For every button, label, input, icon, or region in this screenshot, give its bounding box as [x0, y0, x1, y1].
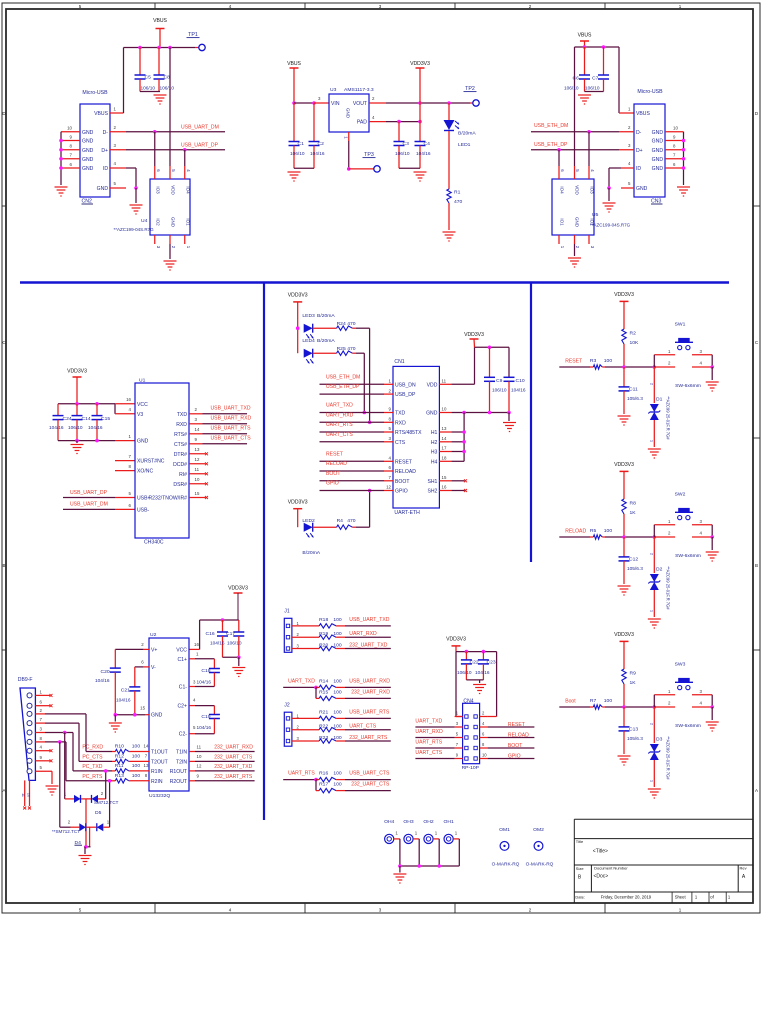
- svg-text:104/16: 104/16: [49, 425, 64, 431]
- svg-text:ID: ID: [103, 166, 108, 172]
- svg-text:IO4: IO4: [560, 186, 565, 194]
- svg-text:100: 100: [333, 735, 342, 741]
- svg-text:R25: R25: [337, 346, 346, 352]
- svg-text:R11: R11: [115, 763, 124, 769]
- svg-text:V+: V+: [151, 647, 157, 653]
- svg-text:VIN: VIN: [331, 101, 340, 107]
- svg-text:UART_RTS: UART_RTS: [288, 771, 315, 777]
- svg-text:PC_CTS: PC_CTS: [82, 754, 103, 760]
- svg-text:B/20mA: B/20mA: [302, 550, 320, 556]
- svg-text:12: 12: [197, 764, 202, 769]
- svg-text:R2: R2: [630, 331, 637, 337]
- svg-text:TXD: TXD: [177, 412, 188, 418]
- svg-text:10: 10: [197, 754, 202, 759]
- svg-text:2: 2: [649, 383, 654, 385]
- svg-text:18: 18: [442, 456, 447, 461]
- svg-text:232_UART_TXD: 232_UART_TXD: [214, 764, 252, 770]
- svg-text:100: 100: [333, 617, 342, 623]
- svg-text:Boot: Boot: [565, 698, 576, 704]
- svg-text:BOOT: BOOT: [508, 743, 522, 749]
- svg-text:D1: D1: [656, 397, 663, 403]
- svg-text:100: 100: [604, 528, 613, 534]
- svg-text:C2-: C2-: [179, 732, 188, 738]
- svg-text:T2OUT: T2OUT: [151, 759, 168, 765]
- svg-text:C5: C5: [145, 75, 152, 81]
- svg-text:OM2: OM2: [533, 827, 544, 833]
- svg-text:GPIO: GPIO: [326, 481, 339, 487]
- svg-text:10: 10: [26, 793, 30, 797]
- svg-text:USB_ETH_DM: USB_ETH_DM: [326, 374, 360, 380]
- svg-text:VCC: VCC: [137, 402, 148, 408]
- svg-text:DCD#: DCD#: [173, 462, 187, 468]
- svg-text:UART_TXD: UART_TXD: [415, 718, 442, 724]
- svg-text:PAD: PAD: [357, 120, 367, 126]
- svg-text:232_UART_CTS: 232_UART_CTS: [351, 782, 390, 788]
- svg-text:T2IN: T2IN: [176, 759, 187, 765]
- svg-text:IO2: IO2: [156, 218, 161, 226]
- svg-text:**AZC99 25-01F.R 7G#: **AZC99 25-01F.R 7G#: [665, 736, 670, 780]
- svg-text:16: 16: [194, 642, 199, 647]
- svg-text:USB_UART_DM: USB_UART_DM: [181, 124, 219, 130]
- svg-text:R12: R12: [115, 754, 124, 760]
- svg-text:100: 100: [333, 689, 342, 695]
- svg-text:106/10: 106/10: [492, 388, 507, 394]
- svg-text:BOOT: BOOT: [326, 471, 340, 477]
- svg-text:V3: V3: [137, 412, 143, 418]
- svg-text:VBUS: VBUS: [636, 111, 650, 117]
- svg-text:13: 13: [144, 763, 149, 768]
- svg-text:VOUT: VOUT: [353, 101, 367, 107]
- svg-text:D5: D5: [95, 810, 102, 816]
- svg-text:232_UART_RXD: 232_UART_RXD: [351, 689, 390, 695]
- svg-text:TP2: TP2: [465, 86, 475, 92]
- svg-text:104/16: 104/16: [310, 151, 325, 157]
- svg-text:H3: H3: [431, 450, 438, 456]
- svg-text:VDD3V3: VDD3V3: [464, 332, 484, 338]
- svg-text:C2+: C2+: [178, 704, 188, 710]
- svg-text:C17: C17: [226, 631, 235, 637]
- svg-text:R22: R22: [319, 724, 328, 730]
- svg-text:RTS/485TX: RTS/485TX: [395, 430, 422, 436]
- svg-text:SW1: SW1: [675, 322, 686, 328]
- svg-text:D-: D-: [103, 130, 109, 136]
- svg-text:R4: R4: [337, 518, 344, 524]
- svg-text:2: 2: [649, 553, 654, 555]
- svg-text:USB_UART_DP: USB_UART_DP: [70, 490, 108, 496]
- svg-text:ID: ID: [636, 166, 641, 172]
- svg-text:GND: GND: [575, 217, 580, 228]
- svg-text:GPIO: GPIO: [395, 489, 408, 495]
- svg-text:A: A: [755, 788, 758, 793]
- svg-text:USB_UART_DP: USB_UART_DP: [181, 142, 219, 148]
- svg-text:CN1: CN1: [394, 359, 404, 365]
- svg-text:USB-: USB-: [137, 507, 149, 513]
- svg-text:LED3: LED3: [302, 313, 315, 319]
- svg-text:TP1: TP1: [188, 32, 198, 38]
- svg-text:UART_CTS: UART_CTS: [326, 432, 353, 438]
- svg-text:2: 2: [649, 723, 654, 725]
- svg-text:R13: R13: [115, 773, 124, 779]
- svg-text:CTS#: CTS#: [174, 442, 187, 448]
- svg-text:16: 16: [442, 485, 447, 490]
- svg-text:IO1: IO1: [560, 218, 565, 226]
- svg-text:104/16: 104/16: [511, 388, 526, 394]
- svg-text:BOOT: BOOT: [395, 479, 409, 485]
- svg-text:C24: C24: [63, 416, 72, 422]
- svg-text:B/20mA: B/20mA: [317, 313, 335, 319]
- svg-text:16: 16: [126, 397, 131, 402]
- svg-text:USB_DP: USB_DP: [395, 392, 416, 398]
- svg-text:D-: D-: [636, 130, 642, 136]
- svg-text:RELOAD: RELOAD: [565, 528, 586, 534]
- svg-text:UART-ETH: UART-ETH: [394, 510, 420, 516]
- svg-text:SW2: SW2: [675, 492, 686, 498]
- svg-text:SW-6x6mm: SW-6x6mm: [675, 383, 701, 389]
- svg-text:Micro-USB: Micro-USB: [637, 89, 663, 95]
- svg-text:10: 10: [482, 753, 487, 758]
- svg-text:USB_UART_DM: USB_UART_DM: [70, 502, 108, 508]
- svg-text:13: 13: [442, 426, 447, 431]
- svg-text:LED2: LED2: [302, 518, 315, 524]
- svg-text:105/6.3: 105/6.3: [627, 396, 643, 402]
- svg-text:100: 100: [333, 771, 342, 777]
- svg-text:SH2: SH2: [427, 489, 437, 495]
- svg-text:Size: Size: [576, 866, 585, 871]
- svg-text:C3: C3: [403, 141, 410, 147]
- svg-text:100: 100: [333, 710, 342, 716]
- svg-text:Friday, December 20, 2019: Friday, December 20, 2019: [601, 894, 652, 899]
- svg-text:USB_UART_CTS: USB_UART_CTS: [349, 771, 390, 777]
- svg-text:D+: D+: [636, 148, 643, 154]
- svg-text:XURST#NC: XURST#NC: [137, 459, 165, 465]
- svg-text:U2: U2: [150, 632, 157, 638]
- svg-text:C8: C8: [164, 75, 171, 81]
- svg-text:VDD3V3: VDD3V3: [67, 369, 87, 375]
- svg-text:J2: J2: [284, 703, 290, 709]
- svg-text:SM712.TCT: SM712.TCT: [94, 800, 119, 805]
- svg-text:B: B: [2, 563, 5, 568]
- svg-text:VDD3V3: VDD3V3: [614, 462, 634, 468]
- svg-text:106/10: 106/10: [457, 670, 472, 676]
- svg-text:R5: R5: [590, 528, 597, 534]
- svg-text:C15: C15: [101, 416, 110, 422]
- svg-text:Micro-USB: Micro-USB: [82, 90, 108, 96]
- svg-text:R9: R9: [630, 671, 637, 677]
- svg-text:C9: C9: [496, 378, 503, 384]
- svg-text:GND: GND: [82, 166, 94, 172]
- svg-text:B/20mA: B/20mA: [458, 131, 476, 137]
- svg-text:R3: R3: [590, 358, 597, 364]
- svg-text:11: 11: [21, 793, 25, 797]
- svg-text:GND: GND: [137, 439, 149, 445]
- svg-text:D3: D3: [656, 737, 663, 743]
- svg-text:GND: GND: [652, 130, 664, 136]
- svg-text:R2IN: R2IN: [151, 779, 163, 785]
- svg-text:PC_RTS: PC_RTS: [82, 774, 103, 780]
- svg-text:11: 11: [195, 467, 200, 472]
- svg-text:USB_UART_TXD: USB_UART_TXD: [349, 617, 389, 623]
- svg-text:O-MARK-RQ: O-MARK-RQ: [526, 861, 554, 867]
- svg-text:B: B: [755, 563, 758, 568]
- svg-text:B/20mA: B/20mA: [317, 338, 335, 344]
- svg-text:106/10: 106/10: [564, 86, 579, 92]
- svg-text:1: 1: [649, 780, 654, 782]
- svg-text:VDD3V3: VDD3V3: [614, 292, 634, 298]
- svg-text:C23: C23: [487, 660, 496, 666]
- svg-text:14: 14: [144, 744, 149, 749]
- svg-text:RXD: RXD: [176, 422, 187, 428]
- svg-text:R23: R23: [319, 735, 328, 741]
- svg-text:13: 13: [195, 447, 200, 452]
- svg-text:VDD3V3: VDD3V3: [288, 499, 308, 505]
- svg-text:10: 10: [195, 477, 200, 482]
- svg-text:R20: R20: [319, 642, 328, 648]
- svg-text:GND: GND: [652, 139, 664, 145]
- svg-text:GND: GND: [652, 166, 664, 172]
- svg-text:OH2: OH2: [423, 819, 433, 825]
- svg-text:R1OUT: R1OUT: [170, 769, 187, 775]
- svg-text:VBUS: VBUS: [153, 18, 167, 24]
- svg-text:GND: GND: [171, 217, 176, 228]
- svg-text:UART_TXD: UART_TXD: [326, 403, 353, 409]
- svg-text:104/16: 104/16: [197, 725, 212, 731]
- svg-text:UART_RTS: UART_RTS: [415, 739, 442, 745]
- svg-text:VDD: VDD: [427, 382, 438, 388]
- svg-text:Date:: Date:: [575, 894, 585, 899]
- svg-text:IO3: IO3: [156, 186, 161, 194]
- svg-text:RTS#: RTS#: [174, 432, 187, 438]
- svg-text:U4: U4: [141, 218, 148, 224]
- svg-text:R15: R15: [319, 689, 328, 695]
- svg-text:100: 100: [132, 754, 141, 760]
- svg-text:D2: D2: [656, 567, 663, 573]
- svg-text:**AZC99 25-01F.R 7G#: **AZC99 25-01F.R 7G#: [665, 396, 670, 440]
- svg-text:LED1: LED1: [458, 142, 471, 148]
- svg-text:USB_UART_RXD: USB_UART_RXD: [349, 679, 390, 685]
- svg-text:R17: R17: [319, 782, 328, 788]
- svg-text:104/16: 104/16: [210, 641, 225, 647]
- svg-text:UART_RXD: UART_RXD: [349, 631, 377, 637]
- svg-text:RESET: RESET: [326, 451, 343, 457]
- svg-text:C6: C6: [573, 76, 580, 82]
- svg-text:C7: C7: [592, 76, 599, 82]
- svg-text:GND: GND: [82, 148, 94, 154]
- svg-text:USB_UART_RXD: USB_UART_RXD: [211, 415, 252, 421]
- svg-text:OM1: OM1: [499, 827, 510, 833]
- svg-text:GND: GND: [636, 186, 648, 192]
- svg-text:106/10: 106/10: [395, 151, 410, 157]
- svg-text:11: 11: [442, 379, 447, 384]
- svg-text:R18: R18: [319, 617, 328, 623]
- svg-text:Sheet: Sheet: [675, 894, 687, 899]
- svg-text:VBUS: VBUS: [578, 33, 592, 39]
- svg-text:100: 100: [132, 744, 141, 750]
- svg-text:USB_UART_RTS: USB_UART_RTS: [349, 710, 390, 716]
- svg-text:R14: R14: [319, 679, 328, 685]
- svg-text:R232/TNOW/IR#: R232/TNOW/IR#: [149, 496, 188, 502]
- svg-text:15: 15: [140, 706, 145, 711]
- svg-text:105/6.3: 105/6.3: [627, 566, 643, 572]
- svg-text:**AZC99 25-01F.R 7G#: **AZC99 25-01F.R 7G#: [665, 566, 670, 610]
- svg-text:USB_UART_RTS: USB_UART_RTS: [211, 425, 252, 431]
- svg-text:RESET: RESET: [565, 358, 582, 364]
- svg-text:232_UART_RXD: 232_UART_RXD: [214, 745, 253, 751]
- svg-text:VBUS: VBUS: [94, 111, 108, 117]
- svg-text:1K: 1K: [630, 680, 637, 686]
- svg-text:11: 11: [197, 744, 202, 749]
- svg-text:**AZC199-04S.R7G: **AZC199-04S.R7G: [590, 223, 631, 228]
- svg-text:DB9-F: DB9-F: [18, 677, 33, 683]
- svg-text:100: 100: [604, 698, 613, 704]
- svg-text:UART_RXD: UART_RXD: [326, 412, 354, 418]
- svg-text:104/16: 104/16: [88, 425, 103, 431]
- svg-text:RESET: RESET: [508, 722, 525, 728]
- svg-text:104/16: 104/16: [475, 670, 490, 676]
- svg-text:R21: R21: [319, 710, 328, 716]
- svg-text:H1: H1: [431, 430, 438, 436]
- svg-text:R24: R24: [337, 321, 346, 327]
- svg-text:UART_RXD: UART_RXD: [415, 729, 443, 735]
- svg-text:**SM712.TCT: **SM712.TCT: [52, 829, 80, 834]
- svg-text:100: 100: [333, 724, 342, 730]
- svg-text:IO4: IO4: [186, 186, 191, 194]
- svg-text:104/16: 104/16: [416, 151, 431, 157]
- svg-text:232_UART_TXD: 232_UART_TXD: [349, 642, 387, 648]
- svg-text:C2: C2: [318, 141, 325, 147]
- svg-text:C19: C19: [201, 714, 210, 720]
- svg-text:R8: R8: [630, 501, 637, 507]
- svg-text:12: 12: [386, 485, 391, 490]
- svg-text:VDD3V3: VDD3V3: [228, 586, 248, 592]
- svg-text:105/6.3: 105/6.3: [627, 736, 643, 742]
- svg-text:XO/NC: XO/NC: [137, 469, 153, 475]
- svg-text:470: 470: [454, 199, 463, 205]
- svg-text:R1IN: R1IN: [151, 769, 163, 775]
- svg-text:UART_CTS: UART_CTS: [349, 724, 376, 730]
- svg-text:106/10: 106/10: [160, 86, 175, 92]
- svg-text:CTS: CTS: [395, 440, 406, 446]
- svg-text:15: 15: [195, 491, 200, 496]
- svg-text:USB_UART_TXD: USB_UART_TXD: [211, 405, 251, 411]
- svg-text:O-MARK-RQ: O-MARK-RQ: [492, 861, 520, 867]
- svg-text:IO3: IO3: [590, 186, 595, 194]
- svg-text:SW-6x6mm: SW-6x6mm: [675, 553, 701, 559]
- svg-text:Rev: Rev: [740, 866, 747, 871]
- svg-text:IO1: IO1: [186, 218, 191, 226]
- svg-text:GND: GND: [82, 157, 94, 163]
- svg-text:Title: Title: [576, 839, 584, 844]
- svg-text:OH4: OH4: [384, 819, 394, 825]
- svg-text:100: 100: [333, 642, 342, 648]
- svg-text:VDD: VDD: [575, 185, 580, 195]
- svg-text:DSR#: DSR#: [173, 482, 187, 488]
- svg-text:100: 100: [333, 782, 342, 788]
- svg-text:UART_CTS: UART_CTS: [415, 750, 442, 756]
- svg-text:1: 1: [649, 610, 654, 612]
- svg-text:**AZC199-04S.R7G: **AZC199-04S.R7G: [114, 227, 155, 232]
- svg-text:H4: H4: [431, 459, 438, 465]
- svg-text:470: 470: [347, 346, 356, 352]
- svg-text:C18: C18: [201, 668, 210, 674]
- svg-text:C22: C22: [470, 660, 479, 666]
- svg-text:J1: J1: [284, 609, 290, 615]
- svg-text:UART_TXD: UART_TXD: [288, 679, 315, 685]
- svg-text:106/10: 106/10: [227, 641, 242, 647]
- svg-text:C1: C1: [298, 141, 305, 147]
- svg-text:C16: C16: [206, 631, 215, 637]
- svg-text:V-: V-: [151, 665, 156, 671]
- svg-text:VBUS: VBUS: [287, 61, 301, 67]
- svg-text:10K: 10K: [630, 340, 640, 346]
- svg-text:R7: R7: [590, 698, 597, 704]
- svg-text:CN4: CN4: [463, 698, 473, 704]
- svg-text:R10: R10: [115, 744, 124, 750]
- svg-text:UART_RTS: UART_RTS: [326, 422, 353, 428]
- svg-text:H2: H2: [431, 440, 438, 446]
- svg-text:100: 100: [132, 773, 141, 779]
- svg-text:C13: C13: [629, 727, 638, 733]
- svg-text:106/10: 106/10: [141, 86, 156, 92]
- svg-text:14: 14: [442, 436, 447, 441]
- svg-text:USB_UART_CTS: USB_UART_CTS: [211, 435, 252, 441]
- svg-text:SW3: SW3: [675, 662, 686, 668]
- svg-text:VDD3V3: VDD3V3: [446, 637, 466, 643]
- svg-text:<Doc>: <Doc>: [594, 874, 609, 880]
- svg-text:10: 10: [673, 126, 678, 131]
- svg-text:10: 10: [67, 126, 72, 131]
- svg-text:15: 15: [442, 475, 447, 480]
- svg-text:U1: U1: [139, 377, 146, 383]
- svg-text:RELOAD: RELOAD: [326, 461, 347, 467]
- svg-text:100: 100: [132, 763, 141, 769]
- svg-text:PC_TXD: PC_TXD: [82, 764, 102, 770]
- svg-text:VDD3V3: VDD3V3: [288, 293, 308, 299]
- svg-text:RI#: RI#: [179, 472, 187, 478]
- svg-text:GND: GND: [82, 130, 94, 136]
- svg-text:GND: GND: [82, 139, 94, 145]
- svg-text:104/16: 104/16: [197, 679, 212, 685]
- svg-text:VCC: VCC: [176, 647, 187, 653]
- svg-text:USB_ETH_DM: USB_ETH_DM: [534, 123, 568, 129]
- svg-text:DTR#: DTR#: [174, 452, 187, 458]
- svg-text:R1: R1: [454, 190, 461, 196]
- svg-text:T1OUT: T1OUT: [151, 750, 168, 756]
- svg-text:RXD: RXD: [395, 420, 406, 426]
- svg-text:VDD: VDD: [171, 185, 176, 195]
- svg-text:470: 470: [347, 321, 356, 327]
- svg-text:SW-6x6mm: SW-6x6mm: [675, 723, 701, 729]
- svg-text:T1IN: T1IN: [176, 750, 187, 756]
- svg-text:VDD3V3: VDD3V3: [410, 61, 430, 67]
- svg-text:17: 17: [442, 446, 447, 451]
- svg-text:R19: R19: [319, 631, 328, 637]
- svg-text:U5: U5: [592, 212, 599, 218]
- svg-text:USB_DN: USB_DN: [395, 382, 416, 388]
- svg-text:1: 1: [649, 440, 654, 442]
- svg-text:C1-: C1-: [179, 685, 188, 691]
- svg-text:USB_ETH_DP: USB_ETH_DP: [326, 384, 360, 390]
- svg-text:GPIO: GPIO: [508, 753, 521, 759]
- svg-text:GND: GND: [426, 411, 438, 417]
- svg-text:104/16: 104/16: [116, 698, 131, 704]
- svg-text:TXD: TXD: [395, 411, 406, 417]
- svg-text:14: 14: [195, 427, 200, 432]
- svg-text:A: A: [2, 788, 5, 793]
- svg-text:RESET: RESET: [395, 459, 412, 465]
- svg-text:TP3: TP3: [364, 152, 374, 158]
- svg-text:RP-10P: RP-10P: [462, 765, 480, 771]
- svg-text:LED4: LED4: [302, 338, 315, 344]
